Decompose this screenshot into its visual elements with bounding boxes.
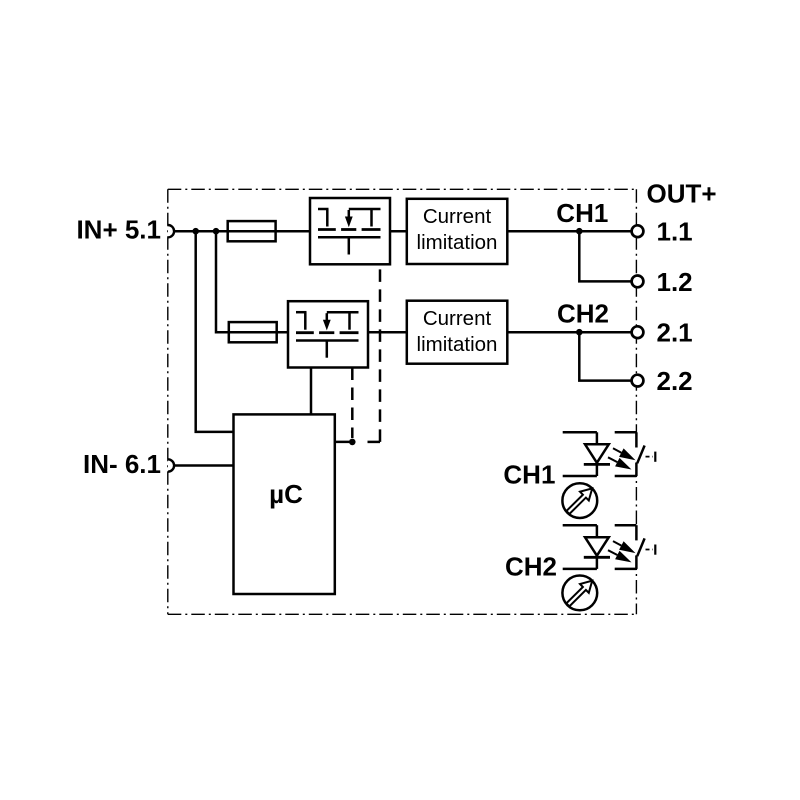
svg-text:1.2: 1.2: [657, 267, 693, 297]
svg-text:CH1: CH1: [503, 459, 555, 489]
svg-text:CH1: CH1: [556, 198, 608, 228]
svg-text:IN+ 5.1: IN+ 5.1: [76, 215, 161, 245]
svg-text:IN- 6.1: IN- 6.1: [83, 449, 161, 479]
svg-text:CH2: CH2: [557, 299, 609, 329]
svg-text:µC: µC: [269, 479, 303, 509]
svg-text:Current: Current: [423, 205, 492, 228]
svg-text:Current: Current: [423, 307, 492, 330]
svg-text:2.1: 2.1: [657, 318, 693, 348]
svg-text:limitation: limitation: [417, 231, 498, 254]
svg-text:limitation: limitation: [417, 333, 498, 356]
svg-text:CH2: CH2: [505, 552, 557, 582]
svg-text:2.2: 2.2: [657, 366, 693, 396]
svg-text:1.1: 1.1: [657, 217, 693, 247]
svg-text:OUT+: OUT+: [647, 179, 717, 209]
